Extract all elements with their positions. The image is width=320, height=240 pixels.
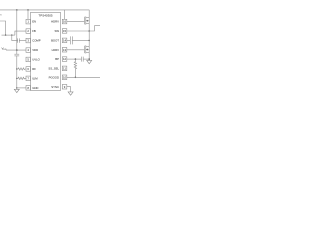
ground power stage	[87, 60, 92, 63]
svg-text:SYNC: SYNC	[51, 85, 59, 89]
pin 2 FB box	[26, 29, 31, 34]
svg-text:12: 12	[63, 57, 67, 61]
svg-text:6: 6	[27, 67, 29, 71]
wire VDD to cap	[16, 50, 18, 54]
pin 16 HDRV box	[62, 19, 67, 24]
pin 10 PGOOD box	[62, 75, 67, 80]
pin 12 BP box	[62, 57, 67, 62]
svg-text:16: 16	[63, 20, 67, 24]
svg-text:9: 9	[64, 85, 66, 89]
resistor R2 ILIM	[17, 77, 26, 79]
wire LDRV gate wire	[67, 49, 85, 51]
svg-text:UVLO: UVLO	[32, 58, 40, 62]
ground SYNC	[68, 92, 73, 95]
op IC U1 TPS40305 body	[31, 12, 61, 90]
resistor R1 RF	[17, 68, 26, 70]
node junction BOOT / SW leg	[88, 40, 90, 42]
node junction GND wire tap	[16, 87, 17, 88]
wire SW to output right edge	[89, 26, 100, 31]
svg-text:RF: RF	[32, 67, 36, 71]
wire COMP cap to pin 3	[19, 40, 26, 42]
transistor Q1 high-side FET	[84, 10, 89, 31]
capacitor C3 bootstrap	[69, 36, 71, 44]
wire GND pin wire	[17, 87, 26, 89]
svg-text:15: 15	[63, 29, 67, 33]
svg-text:ILIM: ILIM	[32, 76, 38, 80]
svg-text:VDD: VDD	[2, 46, 7, 51]
pin 11 SS_SEL box	[62, 66, 67, 71]
node junction FB line / COMP branch	[11, 34, 12, 35]
pin 8 GND box	[26, 86, 31, 91]
svg-text:8: 8	[27, 86, 29, 90]
wire SW wire	[67, 30, 89, 32]
wire COMP branch down	[12, 35, 18, 41]
pin 1 EN box	[26, 19, 31, 24]
svg-text:HDRV: HDRV	[51, 20, 59, 24]
wire VDD pin wire	[6, 49, 26, 51]
pin 3 COMP box	[26, 38, 31, 43]
wire ground rail left	[16, 56, 18, 89]
pin 6 RF box	[26, 67, 31, 72]
node VDD junction	[16, 49, 18, 51]
wire BOOT wire left	[67, 39, 71, 41]
svg-text:11: 11	[63, 66, 66, 70]
node junction BP / PGOOD pullup	[75, 58, 77, 60]
svg-text:VIN: VIN	[0, 12, 3, 17]
pin 7 ILIM box	[26, 76, 31, 81]
wire BP cap to ground node	[83, 58, 89, 60]
svg-text:EN: EN	[32, 20, 36, 24]
svg-text:SS_SEL: SS_SEL	[48, 66, 59, 70]
node junction BP cap / Q2 source	[88, 58, 90, 60]
pin 15 SW box	[62, 29, 67, 34]
wire FB horizontal lower	[2, 34, 15, 36]
svg-text:PGOOD: PGOOD	[49, 75, 59, 79]
svg-text:LDRV: LDRV	[52, 48, 60, 52]
node VIN junction at EN stub	[27, 9, 29, 11]
capacitor C4 BP bypass	[81, 57, 83, 62]
wire FB jog to pin 2	[15, 31, 26, 35]
pin 5 UVLO box	[26, 57, 31, 62]
node junction RF resistor tap	[16, 68, 17, 69]
wire BOOT wire right	[72, 39, 89, 41]
wire SYNC wire	[67, 87, 71, 92]
resistor R3 PGOOD pullup	[74, 59, 76, 77]
node junction PGOOD line	[75, 77, 77, 79]
node junction SW node	[88, 30, 90, 32]
wire HDRV gate wire	[67, 20, 85, 22]
wire PGOOD line to right edge	[67, 76, 100, 78]
node junction ILIM resistor tap	[16, 78, 17, 79]
svg-text:COMP: COMP	[32, 39, 41, 43]
wire HDRV riser to rail	[64, 10, 66, 19]
capacitor C1 comp network	[17, 38, 19, 42]
svg-text:10: 10	[63, 75, 67, 79]
pin 9 SYNC box	[62, 85, 67, 90]
svg-text:GND: GND	[32, 86, 38, 90]
svg-text:1: 1	[27, 20, 29, 24]
svg-text:2: 2	[27, 29, 29, 33]
pin 14 BOOT box	[62, 38, 67, 43]
svg-text:7: 7	[27, 76, 29, 80]
pin 13 LDRV box	[62, 48, 67, 53]
wire EN stub	[27, 10, 29, 20]
wire VDD drop from rail	[16, 10, 18, 50]
svg-text:14: 14	[63, 38, 67, 42]
svg-text:BOOT: BOOT	[51, 38, 59, 42]
svg-text:VDD: VDD	[32, 48, 38, 52]
capacitor C2 VDD bypass	[14, 53, 19, 55]
transistor Q2 low-side FET	[84, 31, 89, 60]
node VIN junction at VDD drop	[16, 9, 18, 11]
svg-text:FB: FB	[32, 29, 36, 33]
svg-text:3: 3	[27, 39, 29, 43]
svg-text:SW: SW	[54, 29, 59, 33]
wire VIN top rail	[0, 9, 89, 11]
svg-text:TPS40305: TPS40305	[38, 14, 53, 18]
ground left	[14, 89, 19, 92]
pin 4 VDD box	[26, 48, 31, 53]
wire BP wire left	[67, 58, 82, 60]
wire VOUT sense entry left edge	[0, 21, 6, 35]
svg-text:BP: BP	[55, 57, 59, 61]
svg-text:13: 13	[63, 48, 67, 52]
node junction FB line / vertical	[5, 34, 6, 35]
svg-text:4: 4	[27, 48, 29, 52]
svg-text:5: 5	[27, 58, 29, 62]
